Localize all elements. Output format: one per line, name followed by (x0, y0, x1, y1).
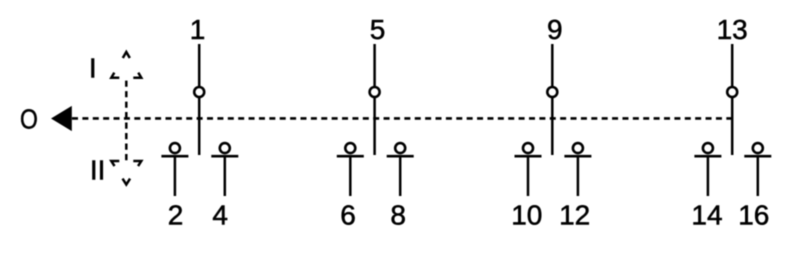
svg-text:14: 14 (691, 199, 722, 230)
svg-text:8: 8 (390, 199, 406, 230)
svg-text:10: 10 (511, 199, 542, 230)
contact 4 bar (211, 155, 238, 158)
contact 13 moving blade (731, 44, 734, 86)
contact 2 lead (174, 156, 177, 196)
contact 16 bar (744, 155, 771, 158)
wire: vertical dashed direction axis (125, 81, 128, 161)
contact 6 bar (337, 155, 364, 158)
contact 8 lead (399, 156, 402, 196)
contact 9 roller (547, 87, 557, 97)
contact 16 lead (757, 156, 760, 196)
svg-text:6: 6 (340, 199, 356, 230)
contact 2 roller (170, 143, 180, 153)
contact 12 roller (573, 143, 583, 153)
contact 1 roller (194, 87, 204, 97)
contact 4 roller (220, 143, 230, 153)
contact 6 roller (345, 143, 355, 153)
contact 14 roller (703, 143, 713, 153)
svg-text:2: 2 (168, 199, 184, 230)
contact 1 moving blade (198, 44, 201, 86)
contact 12 lead (577, 156, 580, 196)
contact 8 bar (387, 155, 414, 158)
svg-text:1: 1 (190, 14, 206, 45)
svg-text:13: 13 (717, 14, 748, 45)
contact 12 bar (564, 155, 591, 158)
svg-text:12: 12 (559, 199, 590, 230)
contact 8 roller (395, 143, 405, 153)
svg-text:5: 5 (370, 14, 386, 45)
svg-text:O: O (20, 104, 38, 135)
svg-text:16: 16 (738, 199, 769, 230)
contact 14 lead (707, 156, 710, 196)
contact 16 roller (753, 143, 763, 153)
svg-text:4: 4 (212, 199, 228, 230)
svg-text:II: II (90, 154, 106, 185)
contact 10 lead (527, 156, 530, 196)
contact 5 moving blade (373, 44, 376, 86)
contact 13 roller (727, 87, 737, 97)
svg-text:9: 9 (547, 14, 563, 45)
contact 9 moving blade (551, 44, 554, 86)
contact 10 bar (515, 155, 542, 158)
wire: horizontal dashed travel axis (72, 117, 732, 120)
contact 2 bar (161, 155, 188, 158)
svg-text:I: I (89, 53, 97, 84)
arrowhead down (direction II, dashed open triangle) (111, 161, 141, 185)
arrowhead for node O pointer (51, 106, 72, 131)
contact 4 lead (224, 156, 227, 196)
arrowhead up (direction I, dashed open triangle) (111, 52, 141, 78)
contact 14 bar (694, 155, 721, 158)
contact 10 roller (523, 143, 533, 153)
contact 6 lead (349, 156, 352, 196)
contact 5 roller (370, 87, 380, 97)
